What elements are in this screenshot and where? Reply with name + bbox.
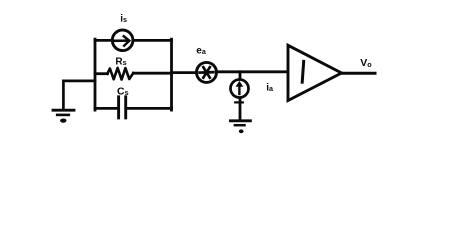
ground (middle) xyxy=(230,121,250,133)
wire noise source to amplifier xyxy=(218,70,288,73)
noise source ea xyxy=(197,62,217,82)
ground (left) xyxy=(53,110,74,123)
resistor Rs xyxy=(107,68,133,80)
svg-text:ia: ia xyxy=(266,83,274,94)
wire junction stub down to ia xyxy=(239,72,242,78)
wire output xyxy=(342,72,376,75)
wire top rail left xyxy=(95,39,112,42)
wire loop left vertical xyxy=(94,39,97,110)
current source ia xyxy=(231,80,249,98)
wire top rail right xyxy=(133,39,171,42)
svg-text:Vo: Vo xyxy=(360,57,372,69)
svg-text:ea: ea xyxy=(196,45,207,56)
wire resistor left lead xyxy=(95,72,108,75)
wire ia to ground xyxy=(239,98,242,120)
svg-text:Rs: Rs xyxy=(115,56,126,67)
wire loop to noise source xyxy=(172,71,197,74)
svg-text:Cs: Cs xyxy=(117,85,129,97)
svg-text:is: is xyxy=(120,14,127,25)
capacitor Cs xyxy=(119,97,126,118)
wire resistor right lead xyxy=(134,72,172,75)
op-amp U1 xyxy=(288,45,342,100)
wire small tick on stem xyxy=(235,101,243,103)
wire capacitor left lead xyxy=(95,107,117,110)
wire capacitor right lead xyxy=(127,107,171,110)
wire ground branch left xyxy=(63,81,95,109)
wire loop right vertical xyxy=(170,39,173,110)
current source IS xyxy=(112,30,133,51)
